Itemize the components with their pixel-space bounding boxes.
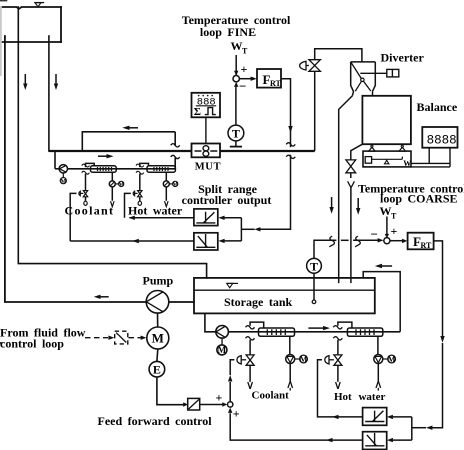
- svg-text:Hot water: Hot water: [128, 204, 183, 218]
- svg-text:T: T: [232, 126, 240, 140]
- svg-text:M: M: [60, 179, 66, 185]
- svg-text:W: W: [231, 39, 243, 53]
- svg-text:−: −: [371, 227, 378, 242]
- svg-text:Hot water: Hot water: [334, 391, 385, 403]
- svg-text:T: T: [242, 47, 248, 56]
- svg-text:W: W: [380, 204, 392, 218]
- svg-text:M: M: [172, 182, 178, 188]
- svg-text:M: M: [300, 355, 308, 364]
- svg-text:8888: 8888: [427, 133, 457, 147]
- svg-text:RT: RT: [421, 241, 432, 250]
- svg-text:Diverter: Diverter: [381, 51, 425, 65]
- svg-text:+: +: [391, 224, 398, 238]
- svg-text:Σ: Σ: [194, 106, 201, 118]
- svg-text:+: +: [216, 390, 223, 404]
- svg-text:M: M: [388, 355, 396, 364]
- svg-text:Coolant: Coolant: [252, 390, 290, 402]
- svg-text:Feed forward control: Feed forward control: [98, 414, 213, 428]
- svg-text:controller output: controller output: [182, 193, 272, 207]
- svg-text:Balance: Balance: [417, 100, 458, 114]
- svg-text:loop FINE: loop FINE: [200, 25, 256, 39]
- svg-text:W: W: [403, 159, 411, 168]
- svg-text:Pump: Pump: [143, 274, 174, 288]
- svg-text:RT: RT: [270, 79, 281, 88]
- svg-text:Coolant: Coolant: [65, 204, 115, 218]
- svg-text:loop COARSE: loop COARSE: [380, 191, 458, 205]
- svg-text:T: T: [391, 211, 397, 220]
- svg-text:T: T: [310, 259, 318, 273]
- svg-text:+: +: [241, 62, 248, 76]
- svg-text:M: M: [218, 345, 227, 355]
- svg-text:MUT: MUT: [195, 161, 221, 172]
- svg-text:+: +: [233, 406, 240, 420]
- svg-text:M: M: [152, 331, 164, 346]
- svg-text:Storage tank: Storage tank: [224, 295, 292, 309]
- svg-text:E: E: [153, 363, 161, 377]
- svg-text:−: −: [239, 79, 246, 94]
- svg-text:M: M: [118, 182, 124, 188]
- svg-text:control loop: control loop: [0, 337, 64, 351]
